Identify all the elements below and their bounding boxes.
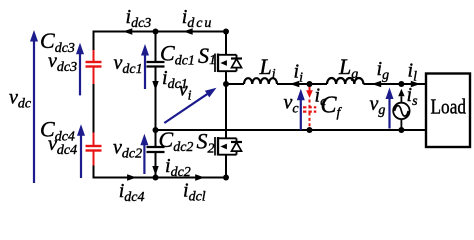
svg-text:Lg: Lg bbox=[338, 54, 358, 82]
svg-text:vi: vi bbox=[179, 79, 192, 104]
svg-text:S2: S2 bbox=[197, 129, 215, 157]
svg-text:vdc2: vdc2 bbox=[113, 136, 142, 161]
svg-text:vdc: vdc bbox=[9, 87, 32, 112]
svg-text:is: is bbox=[407, 84, 419, 109]
svg-text:idc3: idc3 bbox=[126, 6, 152, 31]
svg-text:il: il bbox=[408, 60, 418, 85]
svg-text:idcu: idcu bbox=[182, 6, 212, 31]
svg-text:Cdc2: Cdc2 bbox=[159, 127, 194, 155]
svg-text:Cf: Cf bbox=[321, 93, 343, 121]
svg-text:vg: vg bbox=[370, 93, 386, 118]
svg-text:Load: Load bbox=[431, 94, 467, 118]
svg-text:Cdc3: Cdc3 bbox=[40, 28, 75, 56]
svg-text:Li: Li bbox=[259, 54, 276, 82]
svg-text:vc: vc bbox=[284, 92, 300, 117]
svg-text:Cdc4: Cdc4 bbox=[40, 117, 75, 145]
svg-text:S1: S1 bbox=[198, 43, 216, 68]
svg-text:ii: ii bbox=[294, 61, 304, 86]
svg-text:idc4: idc4 bbox=[119, 180, 145, 205]
svg-text:vdc1: vdc1 bbox=[114, 52, 143, 77]
svg-text:ig: ig bbox=[377, 58, 390, 83]
svg-text:Cdc1: Cdc1 bbox=[160, 41, 195, 69]
svg-text:idc2: idc2 bbox=[165, 155, 191, 180]
svg-text:idcl: idcl bbox=[183, 180, 206, 205]
